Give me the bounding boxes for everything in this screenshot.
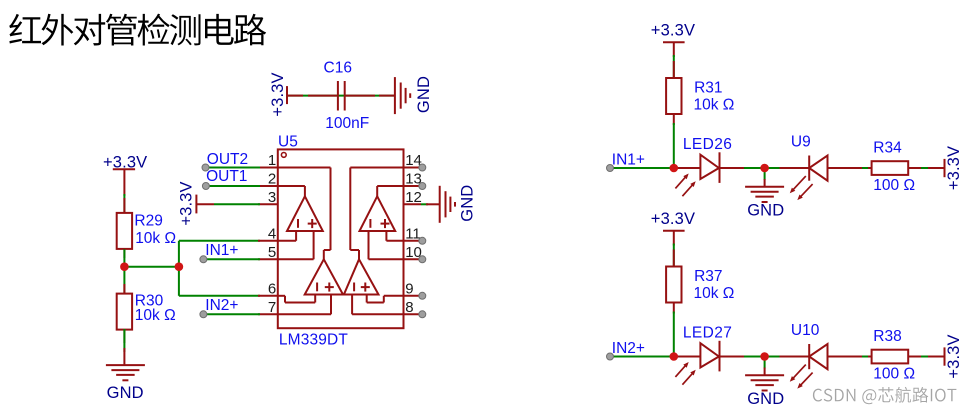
comparator B wiring <box>369 186 404 259</box>
junction node A dots <box>120 262 183 271</box>
svg-text:1: 1 <box>268 152 276 169</box>
resistor R31 pins <box>673 61 675 125</box>
resistor R29 <box>117 213 132 249</box>
LED LED27 anode pin <box>676 356 700 358</box>
resistor R38 <box>872 350 909 364</box>
wire +3.3V to R31 <box>673 55 675 78</box>
wire R30 bottom <box>123 329 125 352</box>
label R38 <box>873 328 901 345</box>
diode U10 <box>780 344 828 369</box>
wire node to pin6 <box>179 267 260 296</box>
watermark CSDN @芯航路IOT <box>813 387 957 404</box>
svg-text:100 Ω: 100 Ω <box>873 177 915 194</box>
svg-text:U10: U10 <box>791 322 820 339</box>
comparator A wiring <box>278 186 314 259</box>
svg-text:R31: R31 <box>694 80 722 97</box>
svg-text:+3.3V: +3.3V <box>178 181 196 225</box>
svg-text:GND: GND <box>415 76 433 113</box>
svg-text:10k Ω: 10k Ω <box>135 230 176 247</box>
power +3.3V port at C16 <box>269 72 303 116</box>
label R30 value <box>135 307 176 324</box>
title text 红外对管检测电路 <box>9 14 266 46</box>
label 100nF <box>325 115 369 132</box>
LED26 light arrows <box>675 174 695 197</box>
resistor R34 <box>872 161 909 175</box>
wire node to pin4 <box>179 241 260 267</box>
LED27 light arrows <box>675 362 695 385</box>
junction dots IN1+ <box>670 164 769 173</box>
junction dots IN2+ <box>670 352 769 361</box>
svg-text:IN1+: IN1+ <box>205 242 238 259</box>
resistor R37 pins <box>673 250 675 314</box>
U5 right pin stubs and numbers 14-8 <box>404 152 426 318</box>
comparator C triangle <box>305 259 343 294</box>
U5 left pin stubs and numbers 1-7 <box>258 152 278 316</box>
svg-text:9: 9 <box>405 280 413 297</box>
svg-text:U5: U5 <box>278 134 298 151</box>
ground GND at C16 <box>379 76 433 114</box>
svg-text:+3.3V: +3.3V <box>651 22 695 40</box>
wire IN2+ <box>607 353 701 360</box>
resistor R31 <box>666 78 681 114</box>
svg-text:+3.3V: +3.3V <box>651 210 695 228</box>
svg-text:5: 5 <box>268 244 276 261</box>
ground GND at pin 12 <box>426 185 476 223</box>
wire IN2+ left <box>200 311 260 318</box>
capacitor C16 <box>308 81 375 111</box>
label LM339DT <box>279 331 348 348</box>
net label IN1+ left <box>205 242 238 259</box>
label R31 <box>694 80 722 97</box>
svg-text:GND: GND <box>458 185 476 222</box>
comparator B triangle <box>360 196 396 231</box>
svg-text:2: 2 <box>268 171 276 188</box>
label U5 <box>278 134 298 151</box>
wire LED26 cathode <box>720 167 765 169</box>
net label IN2+ <box>612 340 645 357</box>
wire OUT2 <box>202 164 260 171</box>
comparator C wiring <box>278 168 331 315</box>
svg-text:R29: R29 <box>134 213 162 230</box>
svg-text:10k Ω: 10k Ω <box>135 307 176 324</box>
wire +3.3V to R37 <box>673 244 675 267</box>
wire LED27 cathode <box>720 356 765 358</box>
label R38 value <box>873 366 915 383</box>
power +3.3V above R31 <box>651 22 695 58</box>
power +3.3V right of R34 <box>945 146 963 190</box>
wire U9 to R34 <box>828 167 873 169</box>
wire R37 to node <box>673 312 675 357</box>
net label OUT1 <box>206 168 247 185</box>
label U9 <box>791 133 811 150</box>
svg-text:GND: GND <box>107 384 144 402</box>
svg-text:10k Ω: 10k Ω <box>694 97 735 114</box>
label LED26 <box>683 136 732 153</box>
comparator D wiring <box>350 168 403 315</box>
wire R29 top <box>123 194 125 212</box>
power +3.3V right of R38 <box>945 334 963 378</box>
resistor R30 <box>117 294 132 330</box>
svg-text:LM339DT: LM339DT <box>279 331 348 348</box>
wire R29 bottom to node <box>123 249 125 266</box>
svg-text:LED27: LED27 <box>683 325 732 342</box>
power +3.3V at pin 3 <box>178 181 214 225</box>
diode U9 <box>780 156 828 181</box>
comparator A triangle <box>287 196 323 231</box>
wire C16 rail <box>287 95 395 97</box>
svg-text:+3.3V: +3.3V <box>945 334 963 378</box>
wire IN1+ left <box>200 256 260 263</box>
power +3.3V above R37 <box>651 210 695 246</box>
resistor R30 pins <box>123 284 125 343</box>
diode LED27 <box>700 341 719 372</box>
label U10 <box>791 322 820 339</box>
label R34 value <box>873 177 915 194</box>
wire U10 to R38 <box>828 356 873 358</box>
svg-text:GND: GND <box>747 202 784 220</box>
label R34 <box>873 140 902 157</box>
wire pin12 <box>421 203 428 205</box>
svg-text:GND: GND <box>747 390 784 408</box>
wire node A horizontal <box>124 266 178 268</box>
wire R38 to power <box>909 356 945 358</box>
wire R34 to power <box>909 167 945 169</box>
svg-text:100nF: 100nF <box>325 115 369 132</box>
svg-text:R37: R37 <box>694 268 722 285</box>
U10 light arrows <box>790 365 813 389</box>
svg-text:+3.3V: +3.3V <box>945 146 963 190</box>
wire pin3 <box>214 203 260 205</box>
label C16 <box>324 60 352 77</box>
label R31 value <box>694 97 735 114</box>
svg-text:LED26: LED26 <box>683 136 732 153</box>
svg-text:3: 3 <box>268 189 276 206</box>
resistor R29 pins <box>123 198 125 258</box>
svg-text:8: 8 <box>405 299 413 316</box>
svg-text:6: 6 <box>268 280 276 297</box>
label R37 <box>694 268 722 285</box>
LED LED26 anode pin <box>676 167 700 169</box>
wire LED node to U node <box>765 356 781 358</box>
wire IN1+ <box>607 165 701 172</box>
svg-text:+3.3V: +3.3V <box>269 72 287 116</box>
power +3.3V above R29 <box>103 154 147 197</box>
wire R31 to node <box>673 123 675 168</box>
svg-text:OUT2: OUT2 <box>207 151 248 168</box>
comparator D triangle <box>344 259 379 294</box>
svg-text:IN1+: IN1+ <box>612 152 645 169</box>
net label IN1+ <box>612 152 645 169</box>
wire LED node to U node <box>765 167 781 169</box>
svg-text:U9: U9 <box>791 133 811 150</box>
resistor R37 <box>666 267 681 303</box>
net label OUT2 <box>207 151 248 168</box>
svg-text:IN2+: IN2+ <box>205 297 238 314</box>
svg-text:10k Ω: 10k Ω <box>694 285 735 302</box>
svg-text:7: 7 <box>268 299 276 316</box>
wire OUT1 <box>202 183 260 190</box>
svg-text:OUT1: OUT1 <box>206 168 247 185</box>
ground below R30 <box>106 348 145 402</box>
svg-text:12: 12 <box>405 189 422 206</box>
label R30 <box>135 293 164 310</box>
svg-text:4: 4 <box>268 225 276 242</box>
ground at LED27 node <box>745 357 784 409</box>
wire R30 top <box>123 267 125 294</box>
ground at LED26 node <box>745 168 784 220</box>
svg-text:R34: R34 <box>873 140 902 157</box>
U9 light arrows <box>790 176 813 200</box>
net label IN2+ left <box>205 297 238 314</box>
op-amp U5 body <box>278 149 404 328</box>
label R37 value <box>694 285 735 302</box>
diode LED26 <box>700 152 719 183</box>
label R29 <box>134 213 162 230</box>
svg-text:C16: C16 <box>324 60 352 77</box>
svg-text:IN2+: IN2+ <box>612 340 645 357</box>
label R29 value <box>135 230 176 247</box>
svg-text:R38: R38 <box>873 328 901 345</box>
svg-text:100 Ω: 100 Ω <box>873 366 915 383</box>
label LED27 <box>683 325 732 342</box>
